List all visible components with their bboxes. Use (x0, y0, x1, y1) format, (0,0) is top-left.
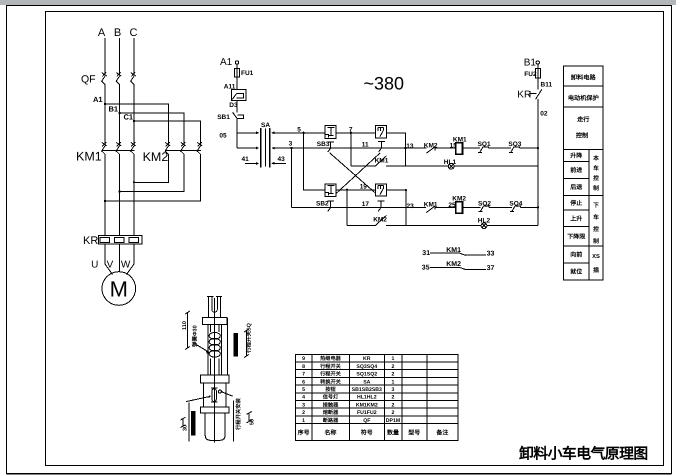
wire phase A lower (104, 154, 106, 235)
svg-text:升降: 升降 (570, 152, 583, 160)
svg-text:KM1: KM1 (375, 158, 389, 165)
centerline (214, 298, 216, 442)
bolt detail (slot + pin) (212, 389, 216, 402)
self-hold wire KM2 (347, 225, 406, 227)
svg-text:05: 05 (219, 133, 227, 140)
contactor KM2 pole 3 (197, 142, 202, 154)
fuse FU1 (234, 68, 239, 77)
contactor KM1 pole 1 (102, 142, 107, 154)
svg-text:行程开关安装: 行程开关安装 (235, 398, 242, 431)
svg-text:XS: XS (592, 253, 600, 260)
breaker QF pole 1 (102, 72, 107, 84)
connector box A11 (231, 90, 246, 101)
svg-text:KM2: KM2 (373, 217, 387, 224)
svg-text:下: 下 (593, 202, 599, 209)
svg-text:9: 9 (302, 356, 305, 362)
svg-text:30: 30 (183, 425, 189, 431)
wire 19 segment (336, 189, 375, 191)
svg-text:SB1: SB1 (217, 114, 230, 121)
svg-text:型号: 型号 (408, 429, 420, 437)
KR heater element 2 (115, 237, 125, 242)
wire HL2 branch (406, 225, 538, 227)
svg-text:2: 2 (392, 410, 395, 416)
contact KM1 aux T (wire 11) (378, 142, 385, 152)
svg-text:1: 1 (392, 356, 395, 362)
svg-text:上升: 上升 (570, 215, 582, 223)
svg-text:1: 1 (392, 379, 395, 385)
tube 2 (203, 383, 226, 407)
svg-text:3: 3 (302, 402, 305, 408)
svg-text:向前: 向前 (570, 251, 582, 259)
wire 05 to SA lower (237, 147, 258, 149)
wire C1 branch to KM2 (134, 121, 201, 144)
svg-text:前进: 前进 (570, 166, 582, 174)
svg-text:信号灯: 信号灯 (323, 394, 339, 401)
wire phase C lower (133, 154, 135, 235)
svg-text:2: 2 (392, 395, 395, 401)
svg-text:弹簧Φ30: 弹簧Φ30 (192, 325, 199, 347)
svg-text:接触器: 接触器 (323, 401, 339, 408)
contactor KM1 pole 2 (116, 142, 121, 154)
wire 17 horizontal (291, 206, 426, 208)
KR heater element 3 (129, 237, 139, 242)
svg-text:KM1: KM1 (424, 202, 438, 209)
left leader arrow (196, 345, 210, 353)
svg-text:名称: 名称 (324, 429, 336, 437)
crossover diagonal B (336, 153, 380, 194)
svg-text:4: 4 (302, 395, 305, 401)
wire phase C upper (133, 38, 135, 75)
coil KM1 (456, 143, 463, 155)
fuse FU2 (535, 69, 540, 79)
wire 05 to SA upper (237, 132, 258, 134)
right extension line (233, 401, 235, 442)
wire vertical node7 (350, 133, 352, 166)
svg-text:制: 制 (593, 238, 599, 245)
wire 43 stub (272, 162, 286, 164)
svg-text:5: 5 (302, 387, 305, 393)
right callout dim (244, 329, 249, 358)
wire SQ1-SQ3 (489, 147, 511, 149)
left dim lower (181, 417, 186, 427)
svg-text:37: 37 (487, 265, 495, 272)
wire D3 down (236, 100, 238, 112)
coil KM2 (456, 202, 463, 214)
svg-text:11: 11 (362, 142, 369, 149)
svg-text:13: 13 (406, 143, 414, 150)
svg-text:KM1: KM1 (76, 150, 102, 164)
wire phase B upper (119, 38, 121, 75)
svg-text:B1: B1 (524, 57, 537, 68)
svg-text:控: 控 (593, 174, 599, 182)
svg-text:M: M (110, 277, 128, 302)
svg-text:SQ3SQ4: SQ3SQ4 (356, 364, 377, 370)
crossover diagonal A (330, 153, 376, 193)
svg-text:卸料电路: 卸料电路 (571, 74, 597, 82)
limit switch SQ1 (478, 147, 489, 153)
svg-text:41: 41 (242, 156, 250, 163)
svg-text:序号: 序号 (298, 429, 310, 437)
svg-text:SQ1SQ2: SQ1SQ2 (356, 372, 377, 378)
wire A1 branch to KM2 (105, 104, 169, 144)
flange 2 (201, 375, 230, 383)
svg-text:6: 6 (302, 379, 305, 385)
wire 25-SQ2 (463, 206, 481, 208)
svg-text:2: 2 (302, 410, 305, 416)
pushbutton SB1 (stop) (233, 112, 244, 118)
svg-text:SQ4: SQ4 (509, 201, 522, 208)
wire KM2 output 2 crossover (120, 154, 185, 191)
svg-text:制: 制 (593, 185, 599, 192)
svg-text:按钮: 按钮 (325, 386, 336, 393)
contactor KM2 pole 2 (181, 142, 186, 154)
wire B1 down (537, 64, 539, 89)
svg-text:FU2: FU2 (524, 71, 537, 78)
wire phase C mid (133, 85, 135, 145)
svg-text:就位: 就位 (570, 268, 582, 276)
aux contact KM1 wire31-33 (430, 253, 486, 255)
contact block KM1 box (bottom) (375, 184, 386, 196)
contactor KM1 pole 3 (131, 142, 136, 154)
svg-text:FU1FU2: FU1FU2 (357, 410, 377, 416)
button SB2 box (325, 184, 336, 197)
wire 02 vertical (537, 99, 539, 226)
svg-text:33: 33 (487, 251, 495, 258)
svg-text:备注: 备注 (435, 429, 448, 437)
svg-text:C1: C1 (124, 113, 134, 122)
wire 3-11-13 horizontal (272, 147, 426, 149)
right black bar (234, 333, 238, 356)
SB2 lower contact (327, 201, 334, 211)
KM1 linkage bar (102, 150, 135, 152)
svg-text:35: 35 (422, 265, 430, 272)
svg-text:行程开关SQ: 行程开关SQ (246, 322, 253, 354)
wire U lead (105, 244, 113, 274)
lamp HL1 (448, 163, 454, 169)
limit switch SQ4 (510, 206, 521, 212)
wire 41 stub (245, 162, 258, 164)
svg-text:B1: B1 (109, 105, 119, 114)
svg-text:KR: KR (83, 235, 98, 247)
svg-text:KR: KR (363, 356, 371, 362)
svg-text:后退: 后退 (569, 183, 582, 191)
svg-text:SQ1: SQ1 (478, 141, 491, 148)
thermal relay KR box (99, 236, 143, 245)
SB2 box T symbol (325, 186, 335, 196)
svg-text:热继电器: 热继电器 (320, 355, 342, 362)
svg-text:V: V (107, 260, 114, 271)
wire SQ4 to 02 (521, 206, 538, 208)
svg-text:110: 110 (182, 321, 188, 330)
tube body (208, 324, 221, 375)
wire B1 branch to KM2 (120, 113, 185, 144)
wire KM2 output 1 crossover (134, 154, 169, 182)
svg-text:KM2: KM2 (143, 150, 169, 164)
svg-text:本: 本 (593, 155, 599, 162)
flange 3 (201, 407, 229, 413)
svg-text:A1: A1 (220, 57, 233, 68)
contact KM2 aux T (wire 17) (378, 201, 385, 211)
contactor KM2 pole 1 (165, 142, 170, 154)
svg-text:车: 车 (593, 164, 599, 172)
wire W lead (127, 244, 135, 274)
button SB3 box (325, 126, 336, 139)
svg-text:行程开关: 行程开关 (319, 363, 342, 370)
svg-text:走行: 走行 (576, 116, 590, 124)
wire phase B mid (119, 85, 121, 145)
left dim line upper (185, 311, 190, 350)
svg-text:3: 3 (289, 140, 293, 147)
KM2 self-hold contact slash (375, 215, 386, 225)
svg-text:HL2: HL2 (478, 217, 491, 224)
svg-text:5: 5 (297, 126, 301, 133)
self-hold wire KM1 (351, 165, 406, 167)
svg-text:DP1M: DP1M (386, 418, 400, 424)
wire KM2 output 3 crossover (105, 154, 201, 201)
svg-text:KM1: KM1 (453, 137, 467, 144)
SA arrowheads left (256, 131, 259, 164)
svg-text:SQ2: SQ2 (478, 201, 491, 208)
svg-text:停止: 停止 (570, 199, 582, 207)
lamp HL2 (481, 223, 487, 229)
contact block KM2 box (top) (375, 126, 386, 138)
SB3 box T symbol (325, 128, 335, 138)
fork prongs (207, 297, 222, 318)
svg-text:SB2: SB2 (316, 201, 329, 208)
KR heater element 1 (100, 237, 110, 242)
svg-text:断路器: 断路器 (323, 417, 339, 424)
connector contact inside (232, 94, 243, 100)
svg-text:02: 02 (540, 110, 548, 117)
svg-text:KM1KM2: KM1KM2 (356, 402, 378, 408)
leader to bolt right (222, 392, 233, 396)
thermal contact KR (530, 89, 542, 99)
KM2 box symbol (378, 127, 384, 136)
wire node5 down (304, 133, 325, 190)
svg-text:~380: ~380 (364, 74, 405, 94)
svg-text:HL1HL2: HL1HL2 (357, 395, 377, 401)
svg-text:车: 车 (593, 213, 599, 221)
right dim lower (247, 412, 252, 423)
svg-text:FU1: FU1 (241, 70, 254, 77)
contact KM1 NC (bottom rung) (426, 206, 455, 213)
breaker QF pole 3 (131, 72, 136, 84)
svg-text:下降限: 下降限 (567, 233, 586, 241)
SA arrowheads right (272, 131, 275, 164)
svg-text:转换开关: 转换开关 (320, 378, 342, 385)
wire HL1 branch (405, 165, 537, 167)
wire SQ3 to 02 (520, 147, 538, 149)
svg-text:8: 8 (302, 364, 305, 370)
svg-text:控: 控 (593, 225, 599, 233)
svg-text:50: 50 (250, 419, 256, 425)
svg-text:插: 插 (593, 267, 599, 274)
switch SA bars (260, 128, 262, 168)
aux contact KM2 wire35-37 (430, 267, 486, 269)
contact KM2 NC (top rung) (426, 147, 456, 154)
svg-text:7: 7 (302, 372, 305, 378)
wire SA to SB3 (272, 132, 325, 134)
svg-text:2: 2 (392, 364, 395, 370)
flange 1 (203, 318, 227, 325)
wire 05 vertical (236, 118, 238, 148)
limit switch SQ2 (478, 206, 489, 212)
KM1 self-hold contact slash (375, 156, 386, 166)
leader to bolt left (186, 397, 209, 402)
wire 15-SQ1 (463, 147, 481, 149)
left black bar 2 (191, 411, 196, 436)
wire SQ2-SQ4 (489, 206, 512, 208)
svg-text:B: B (114, 27, 121, 39)
wire node3 down (290, 148, 292, 207)
svg-text:SA: SA (363, 379, 370, 385)
svg-text:数量: 数量 (386, 429, 399, 437)
svg-text:SB1SB2SB3: SB1SB2SB3 (352, 387, 382, 393)
svg-text:U: U (91, 260, 98, 271)
breaker QF pole 2 (116, 72, 121, 84)
svg-text:控制: 控制 (576, 132, 588, 140)
KM1 box symbol (378, 186, 384, 195)
svg-text:KM2: KM2 (424, 143, 438, 150)
wire phase B lower (119, 154, 121, 235)
spring coils (209, 333, 220, 340)
svg-text:19: 19 (360, 184, 368, 191)
svg-text:B11: B11 (541, 82, 553, 89)
svg-text:电动机保护: 电动机保护 (568, 94, 599, 102)
wire V lead (119, 244, 121, 272)
limit switch SQ3 (509, 147, 520, 153)
motor M circle (102, 272, 136, 306)
svg-text:QF: QF (81, 73, 96, 85)
KM2 linkage bar (165, 150, 201, 152)
left extension line (188, 403, 190, 442)
terminal B1 circle (536, 61, 539, 64)
svg-text:A: A (98, 27, 106, 39)
svg-text:行程开关: 行程开关 (319, 371, 342, 378)
right guide line (227, 318, 229, 375)
svg-text:3: 3 (392, 387, 395, 393)
svg-text:2: 2 (392, 402, 395, 408)
svg-text:QF: QF (363, 418, 370, 424)
svg-text:2: 2 (392, 372, 395, 378)
terminal A1 circle (235, 61, 238, 64)
svg-text:31: 31 (422, 250, 430, 257)
wire 7 segment (336, 132, 375, 134)
svg-text:卸料小车电气原理图: 卸料小车电气原理图 (519, 446, 648, 463)
svg-text:符号: 符号 (361, 429, 373, 437)
bottom cylinder (205, 413, 225, 440)
wire vertical node19 (346, 190, 348, 226)
wire A1 down (236, 64, 238, 89)
svg-text:25: 25 (448, 202, 456, 209)
svg-text:23: 23 (407, 203, 415, 210)
wire phase A upper (104, 38, 106, 75)
svg-text:KR: KR (517, 90, 531, 101)
svg-text:43: 43 (278, 156, 286, 163)
svg-text:熔断器: 熔断器 (323, 409, 339, 416)
svg-text:W: W (121, 260, 131, 271)
wire to corner 13 (387, 133, 406, 166)
svg-text:SA: SA (261, 122, 270, 129)
wire to corner 23 (387, 190, 406, 226)
svg-text:17: 17 (362, 201, 370, 208)
svg-text:SQ3: SQ3 (508, 141, 521, 148)
svg-text:KM2: KM2 (452, 196, 466, 203)
svg-text:C: C (130, 27, 138, 39)
wire phase A mid (104, 85, 106, 145)
svg-text:A1: A1 (93, 95, 103, 104)
SB3 lower contact (327, 142, 334, 152)
svg-text:1: 1 (302, 418, 305, 424)
